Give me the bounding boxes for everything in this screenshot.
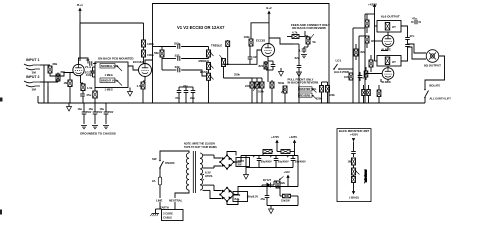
resistor R34 470k mixer [226, 40, 234, 47]
svg-text:+: + [253, 155, 255, 159]
wire divider top [224, 67, 263, 79]
capacitor C12 22n coupling [295, 56, 302, 72]
capacitor C20 16u [100, 103, 114, 124]
svg-text:1.5k: 1.5k [137, 84, 143, 88]
wire bias ground rail [267, 205, 298, 207]
svg-text:100k: 100k [258, 90, 264, 94]
label earth lift psu [160, 207, 169, 210]
svg-text:450V: 450V [97, 111, 103, 114]
capacitor C23 20u 450V [276, 155, 306, 168]
wire tone caps to bus [179, 87, 193, 103]
svg-text:.022: .022 [174, 54, 180, 58]
connector TS2 bias box [233, 192, 248, 202]
label isolate [429, 84, 441, 88]
capacitor C21 50u 450V [246, 155, 272, 168]
svg-text:100p: 100p [86, 73, 92, 77]
wire jack ground drop [425, 56, 445, 89]
svg-text:22k: 22k [281, 181, 286, 185]
svg-text:+425V: +425V [350, 133, 358, 137]
capacitor C5 .022 bass [174, 54, 180, 61]
fuse F1 2A [152, 177, 162, 185]
wire V1B cathode to bus [143, 81, 145, 103]
transformer T1 core [193, 151, 195, 193]
svg-text:1.5k: 1.5k [87, 86, 93, 90]
wire between plate resistors [143, 47, 145, 50]
svg-text:BASS: BASS [200, 70, 208, 74]
capacitor C15 speaker coupling upper [405, 33, 414, 44]
wire plate resistor to V1B [144, 57, 146, 64]
label ON BACK PCB MOUNTED [98, 57, 133, 61]
svg-text:.02: .02 [86, 58, 90, 62]
svg-text:LINE: LINE [156, 199, 163, 203]
resistor R24 15k [280, 187, 295, 203]
capacitor C3 bright cap [86, 67, 95, 77]
potentiometer VR6 1M volume [220, 55, 241, 77]
label INPUT 2 [26, 75, 39, 79]
ground arrow below volume box [128, 88, 133, 97]
capacitor C16 speaker coupling lower [405, 45, 410, 51]
svg-text:.1: .1 [298, 49, 301, 53]
wire note leader [304, 31, 306, 36]
wire bias bus [243, 186, 298, 188]
wire bias out [295, 156, 298, 206]
resistor R26 bias box lower [352, 175, 356, 191]
svg-text:ECC83: ECC83 [256, 39, 265, 43]
wire V1A plate coupling [80, 58, 88, 64]
svg-text:16u: 16u [89, 107, 94, 111]
svg-text:820: 820 [259, 64, 264, 68]
node +425V supply arrow [368, 3, 378, 15]
connector TS1 standby box [236, 158, 250, 167]
wire V4 grid to rail [366, 74, 382, 78]
connector J2 input jack 2 [24, 81, 40, 87]
label 8 ohm output [424, 64, 441, 68]
label grounded to chassis [80, 132, 116, 136]
wire V1A cathode drop [81, 75, 84, 83]
wire scan mark left 1 [0, 98, 3, 102]
svg-text:450V: 450V [108, 111, 114, 114]
node +425V psu arrow [289, 135, 297, 152]
svg-text:100k: 100k [344, 75, 350, 79]
svg-text:ISOLATE: ISOLATE [429, 84, 441, 88]
capacitor C6 .022 mid [162, 59, 180, 73]
potentiometer VR12 bias box trim [352, 168, 360, 175]
node B+2 arrow V2 plate [266, 6, 272, 44]
resistor R33 1M grid leak [64, 73, 73, 104]
label all earth lift [430, 96, 452, 100]
capacitor C18 16u reservoir [78, 103, 92, 124]
label note pull front 2 [288, 80, 319, 84]
potentiometer VR7 5k presence [306, 34, 316, 44]
svg-text:LG1: LG1 [336, 59, 342, 63]
svg-text:BRIGHT VOL: BRIGHT VOL [101, 79, 118, 83]
wire rail A [352, 28, 354, 103]
node bias arrow [284, 170, 291, 181]
svg-text:+42V: +42V [284, 170, 291, 174]
label NEUTRAL [169, 199, 183, 203]
ground arrow bias [269, 206, 274, 214]
svg-text:+425V: +425V [289, 135, 297, 139]
svg-text:+470V: +470V [271, 135, 279, 139]
svg-text:INPUT 2: INPUT 2 [26, 75, 39, 79]
potentiometer VR3 250k TREBLE [207, 43, 223, 57]
svg-text:BY127: BY127 [263, 178, 272, 182]
svg-text:50u/450V: 50u/450V [261, 161, 272, 164]
wire V1B cathode [144, 77, 146, 82]
ground chassis 3 [103, 126, 109, 129]
capacitor C2 0.02 coupling V1A [86, 58, 92, 66]
wire output links [375, 21, 389, 82]
wire bus left risers [38, 86, 48, 103]
wire switch to fuse [159, 168, 161, 177]
svg-text:16u: 16u [78, 107, 83, 111]
svg-text:220k: 220k [316, 97, 322, 101]
svg-text:20u/450V: 20u/450V [278, 161, 289, 164]
wire enclosure right edge lower [328, 44, 330, 103]
wire tone pots to bus [208, 57, 210, 103]
potentiometer VR2 bright vol boxed label [100, 78, 122, 92]
capacitor C10 .02 coupling V2 [248, 46, 257, 64]
resistor R31 cathode out2 [367, 85, 371, 103]
ground arrow hollow below bus [67, 103, 72, 111]
wire V2 plate out [269, 38, 293, 44]
wire ht bus [241, 155, 298, 157]
svg-text:20u/450V: 20u/450V [295, 161, 306, 164]
resistor R15 220k pi [316, 82, 324, 103]
switch S4 earth lift [424, 89, 428, 103]
wire V2 plate branch [251, 23, 269, 39]
label psu note line2 [184, 146, 217, 149]
svg-text:25u: 25u [87, 93, 92, 97]
svg-text:6L6 OUTPUT: 6L6 OUTPUT [381, 15, 400, 19]
svg-text:NORMAL VOL: NORMAL VOL [101, 64, 119, 68]
wire bass cap to pot [181, 58, 208, 60]
wire B+ rail horizontal [80, 23, 144, 61]
capacitor C19 16u [89, 103, 103, 124]
resistor R17 82k [354, 44, 366, 60]
svg-text:1M: 1M [32, 88, 37, 92]
svg-text:47n: 47n [412, 17, 417, 21]
wire coupling to volume box [93, 63, 96, 65]
wire scan mark left 2 [0, 210, 2, 215]
svg-text:OT: OT [392, 25, 396, 29]
svg-text:SW: SW [238, 164, 243, 167]
resistor R11 820 cathode V2 [259, 62, 269, 69]
wire rail top links [343, 28, 365, 69]
wire primary bottom [175, 190, 189, 198]
wire tone top line [159, 46, 176, 48]
wire plate R to grid node [250, 45, 251, 47]
wire bridge2 out [227, 187, 243, 205]
wire heater taps [203, 175, 204, 180]
label back mounted unit [339, 129, 370, 133]
resistor R8 1.5k cathode V1B [137, 82, 146, 89]
resistor R16 220k pi [326, 82, 336, 103]
svg-text:REVERB: REVERB [300, 93, 311, 97]
wire output b+ feed [365, 14, 375, 21]
wire presence wiring [304, 36, 308, 47]
wire back mounted unit box [337, 129, 371, 202]
svg-text:1 MEG: 1 MEG [105, 88, 113, 92]
svg-text:.022: .022 [174, 65, 180, 69]
ground earth mains [150, 209, 161, 216]
resistor R22 choke1 [263, 150, 273, 156]
wire secondary taps upper [203, 155, 222, 168]
wire bias links [262, 181, 288, 187]
potentiometer VR13 tail pot [253, 78, 259, 103]
wire primary top [160, 151, 189, 160]
op-amp V2A triode ECC83 [256, 39, 275, 57]
svg-text:68k: 68k [53, 62, 58, 66]
svg-text:250k: 250k [234, 73, 240, 77]
resistor R21 470 [369, 55, 373, 72]
ground chassis 2 [92, 126, 98, 129]
svg-text:TREBLE: TREBLE [211, 43, 222, 47]
node bias box arrow top [352, 138, 355, 151]
resistor R4 68k [56, 70, 66, 81]
capacitor C14 .1 [358, 72, 365, 81]
svg-text:INPUT 1: INPUT 1 [26, 58, 39, 62]
transformer T1 primary winding [186, 153, 189, 190]
resistor R27 extra divider [93, 88, 98, 104]
switch S1 mains [152, 157, 175, 169]
svg-text:100k: 100k [244, 35, 251, 39]
svg-text:56k: 56k [154, 51, 159, 55]
svg-text:GROUNDED TO CHASSIS: GROUNDED TO CHASSIS [80, 132, 116, 136]
svg-text:1 MEG: 1 MEG [105, 73, 113, 77]
wire grids join [50, 73, 73, 77]
capacitor C24 bias filter [261, 187, 270, 206]
svg-text:B+2: B+2 [266, 6, 272, 10]
svg-text:HUM: HUM [235, 194, 241, 197]
wire V1B plate to tone stack [145, 47, 159, 64]
capacitor C25 bias box [351, 152, 356, 158]
wire treble cap to pot [181, 47, 208, 51]
potentiometer VR1 volume normal boxed label [100, 64, 122, 78]
svg-text:CABLE: CABLE [163, 216, 172, 220]
label LINE [156, 199, 163, 203]
label heater winding [205, 171, 213, 179]
svg-text:B+1: B+1 [77, 3, 83, 7]
svg-text:MIDDLE: MIDDLE [199, 59, 210, 63]
svg-text:100u/6.3V: 100u/6.3V [247, 196, 259, 199]
svg-text:ON BACK PCB MOUNTED: ON BACK PCB MOUNTED [98, 57, 133, 61]
svg-text:16u: 16u [100, 107, 105, 111]
wire volume box to V1B grid [128, 66, 139, 70]
wire mixer bus [223, 63, 250, 65]
wire mixer drop [227, 47, 229, 66]
resistor R32 grid leak out [377, 85, 381, 103]
svg-text:V1 V2 ECC83 OR 12AX7: V1 V2 ECC83 OR 12AX7 [177, 25, 225, 30]
ground arrow psu [244, 156, 249, 180]
resistor R1 1M grid input1 [32, 71, 37, 75]
potentiometer VR4 10k MIDDLE [199, 59, 214, 70]
capacitor C1 25u cathode bypass [80, 91, 91, 104]
svg-text:IN BACK FOR REVERB: IN BACK FOR REVERB [288, 80, 319, 84]
label LG1 switch [336, 59, 342, 63]
node bias box arrow bottom [352, 191, 355, 195]
wire volume box outline [95, 62, 128, 88]
wire mid cap to pot [181, 70, 206, 76]
resistor R18 100k [344, 73, 353, 80]
capacitor C22 20u 450V [259, 155, 289, 168]
capacitor C7 47n [175, 87, 181, 100]
wire bridge1 out [227, 152, 241, 163]
ground arrow float 2 [297, 72, 302, 77]
wire bias box dashes [364, 175, 366, 184]
resistor R10 100k plate V2 [244, 35, 254, 46]
resistor R9 56k slope [154, 47, 164, 59]
label bias vertical [365, 169, 368, 182]
svg-text:450V: 450V [86, 111, 92, 114]
resistor R5 100k plate V1A [142, 40, 155, 47]
potentiometer VR8 master boxed [299, 87, 317, 93]
label note read and connect 2 [292, 26, 326, 30]
wire line cord leads [160, 202, 175, 210]
svg-text:1M: 1M [32, 71, 37, 75]
wire choke tail [294, 152, 296, 156]
wire secondary taps lower [203, 185, 222, 198]
wire jack1 to grid stopper [40, 64, 50, 66]
capacitor C13 .1 presence [298, 47, 306, 53]
wire bright cap taps [93, 67, 96, 77]
op-amp V4 output tube 6L6 [382, 68, 394, 84]
svg-text:25u: 25u [261, 197, 266, 201]
op-amp V1B triode ECC83 [133, 60, 152, 77]
ground presence cap [301, 55, 307, 58]
svg-text:.02: .02 [253, 55, 257, 59]
op-amp V3 output tube 6L6 [382, 35, 394, 51]
transformer T2 primary lower box [377, 56, 401, 67]
wire V1 plate feed [143, 23, 145, 40]
svg-text:TAPS TO SUIT YOUR MAINS: TAPS TO SUIT YOUR MAINS [184, 146, 217, 149]
resistor R29 470 screen [364, 67, 368, 80]
wire V1A plate to B+ [79, 23, 81, 64]
potentiometer VR9 reverb boxed [299, 93, 317, 99]
transformer T1 secondary winding [200, 153, 203, 190]
svg-text:15k/1W: 15k/1W [281, 200, 290, 203]
svg-text:+425V: +425V [368, 3, 378, 7]
transformer T2 primary upper box [377, 21, 401, 33]
wire tone mid line [162, 58, 176, 60]
wire V2 cathode to bus [266, 70, 273, 82]
svg-text:ECC83: ECC83 [133, 60, 143, 64]
svg-text:BAL: BAL [235, 198, 241, 201]
svg-text:500k: 500k [278, 81, 285, 85]
resistor R20 1k5 [365, 36, 369, 48]
resistor R28 4.7k presence feed [287, 31, 305, 39]
svg-text:82k: 82k [361, 50, 366, 54]
wire jack2 to grid stopper [40, 74, 58, 82]
wire V2 cathode [267, 57, 269, 62]
svg-text:250p: 250p [174, 42, 181, 46]
svg-text:(-BIAS): (-BIAS) [349, 195, 359, 199]
wire rail C [364, 14, 366, 103]
svg-text:68k: 68k [61, 70, 66, 74]
svg-text:47n: 47n [410, 34, 415, 38]
label psu note line1 [184, 143, 216, 146]
label note read and connect 1 [291, 23, 330, 27]
svg-text:2A: 2A [152, 179, 156, 183]
capacitor C9 22n [190, 87, 195, 100]
wire input ground drop [44, 65, 48, 103]
svg-text:5k: 5k [313, 40, 317, 44]
label ALL OUTPUT [381, 15, 400, 19]
op-amp V1A triode ECC83 [73, 64, 94, 75]
node +470V arrow [271, 135, 279, 152]
svg-text:4.7k: 4.7k [292, 31, 298, 35]
svg-text:SW: SW [152, 157, 157, 161]
resistor R7 1.5k cathode [81, 83, 93, 91]
svg-text:ALL EARTH LIFT: ALL EARTH LIFT [430, 96, 452, 100]
capacitor C8 47n [183, 84, 188, 96]
svg-text:HALF-PWR: HALF-PWR [334, 70, 349, 74]
rectifier BR1 bridge [219, 154, 235, 170]
svg-text:220k: 220k [245, 84, 251, 88]
connector P1 line cord box [162, 210, 184, 221]
resistor R2 1M grid input2 [32, 88, 37, 92]
svg-text:+: + [287, 155, 289, 159]
label note pull front 1 [288, 77, 314, 81]
resistor R19 1k5 [365, 14, 369, 33]
svg-text:ON/OFF: ON/OFF [165, 161, 175, 165]
wire secondary to jack [401, 26, 426, 61]
svg-text:BIAS SUPPLY: BIAS SUPPLY [365, 169, 368, 182]
wire coupler drop [293, 44, 299, 103]
capacitor C11 cathode bypass V2 [266, 61, 275, 70]
svg-text:+: + [270, 155, 272, 159]
svg-text:3 CORE: 3 CORE [163, 212, 173, 216]
rectifier BR2 bridge [219, 187, 235, 203]
potentiometer VR10 500k [278, 81, 287, 103]
potentiometer VR11 bias adjust [276, 177, 285, 189]
wire main ground bus [38, 102, 425, 104]
svg-text:HTRS.: HTRS. [205, 174, 213, 178]
capacitor C17 47n [411, 17, 421, 25]
wire rail B [358, 36, 360, 103]
label minus bias [349, 195, 359, 199]
svg-text:NEUTRAL: NEUTRAL [169, 199, 183, 203]
resistor R12 220k [245, 78, 254, 103]
wire pi grid bias [322, 81, 328, 83]
diode D1 bias [262, 178, 274, 188]
switch S3 half power [333, 64, 349, 74]
ground arrow float 1 [279, 68, 284, 76]
resistor R25 bias box [348, 158, 356, 168]
svg-text:220k: 220k [329, 93, 335, 97]
resistor R3 68k [48, 62, 58, 73]
wire enclosure left edge lower [152, 60, 154, 103]
capacitor C4 250p treble [174, 42, 181, 49]
label tube types V1 V2 [177, 25, 225, 30]
wire chassis/enclosure outline top [153, 4, 330, 61]
resistor R14 10k [270, 80, 274, 103]
svg-text:OT: OT [392, 60, 396, 64]
node B+1 supply arrow [77, 3, 83, 23]
resistor R13 100k [258, 78, 264, 103]
svg-text:8Ω OUTPUT: 8Ω OUTPUT [424, 64, 441, 68]
svg-text:1M: 1M [64, 81, 69, 85]
wire cap to V2 grid [250, 50, 261, 64]
connector J1 input jack 1 [24, 64, 40, 70]
potentiometer VR5 250k BASS [200, 70, 214, 80]
label bias box +425v [350, 133, 358, 137]
resistor R23 choke2 [277, 150, 295, 154]
connector J3 speaker jack 8 ohm [426, 50, 439, 63]
wire fuse to line [159, 185, 161, 198]
label INPUT 1 [26, 58, 39, 62]
svg-text:100k: 100k [147, 42, 154, 46]
